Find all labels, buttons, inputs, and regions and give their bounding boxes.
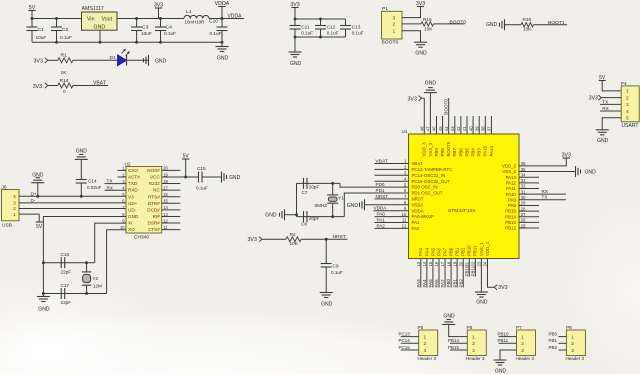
wire C16 row (XI net) xyxy=(43,261,94,264)
svg-text:42: 42 xyxy=(456,126,461,131)
wire AMS1117 GND lead xyxy=(99,30,101,42)
ground symbol above USB (shield) xyxy=(31,172,44,196)
header P7 xyxy=(516,325,536,361)
svg-text:1: 1 xyxy=(472,334,475,340)
svg-text:11: 11 xyxy=(402,218,407,223)
svg-text:PB1: PB1 xyxy=(549,338,558,343)
wire CH340 VCC to 5V and C15 xyxy=(162,159,199,179)
svg-text:PC15-OSC32_OUT: PC15-OSC32_OUT xyxy=(412,179,451,184)
svg-text:1: 1 xyxy=(393,29,396,35)
wire USB D- row xyxy=(19,202,126,204)
CH340 right pin numbers xyxy=(163,166,168,230)
svg-text:VDDA: VDDA xyxy=(228,13,243,19)
svg-text:16: 16 xyxy=(434,261,439,266)
svg-text:44: 44 xyxy=(444,126,449,131)
svg-text:2: 2 xyxy=(13,206,16,212)
svg-text:PA1: PA1 xyxy=(412,220,421,225)
svg-text:C4: C4 xyxy=(166,25,173,31)
ground symbol below USART xyxy=(596,130,609,144)
svg-text:5V: 5V xyxy=(29,5,36,11)
svg-text:22: 22 xyxy=(471,261,476,266)
svg-text:10uF: 10uF xyxy=(36,35,47,41)
capacitor C8 xyxy=(301,211,319,228)
svg-text:19: 19 xyxy=(452,261,457,266)
wire R1 to LED D1 xyxy=(73,59,118,61)
wire USART pin3 TX xyxy=(600,103,621,105)
svg-text:Header 3: Header 3 xyxy=(466,356,485,361)
svg-text:PA1: PA1 xyxy=(377,217,386,222)
wire CH340 pin4 RXD xyxy=(105,189,127,191)
resistor R16 xyxy=(521,17,534,32)
svg-text:DCD#: DCD# xyxy=(147,207,160,212)
wire MCU VSS_1 to ground xyxy=(480,259,482,293)
svg-text:RXD: RXD xyxy=(128,188,138,193)
svg-text:UD+: UD+ xyxy=(128,201,138,206)
svg-text:BOOT0: BOOT0 xyxy=(446,141,451,156)
svg-text:3V3: 3V3 xyxy=(290,2,299,8)
svg-text:10mH10R: 10mH10R xyxy=(185,20,205,25)
ground symbol right of VSS_2 xyxy=(576,166,597,177)
svg-text:PD1 OSC_OUT: PD1 OSC_OUT xyxy=(412,191,443,196)
svg-text:P1: P1 xyxy=(382,6,388,12)
net labels PA3-PB2 (rotated) xyxy=(416,278,463,287)
svg-text:PB10: PB10 xyxy=(467,245,472,256)
svg-text:1K: 1K xyxy=(61,70,68,76)
svg-text:J6: J6 xyxy=(2,184,7,190)
wire MCU BOOT0 pin stub xyxy=(448,98,450,134)
svg-text:3: 3 xyxy=(13,201,16,207)
svg-text:PA10: PA10 xyxy=(506,192,517,197)
capacitor C10 xyxy=(209,18,228,42)
svg-text:C8: C8 xyxy=(301,222,307,228)
svg-text:3: 3 xyxy=(424,348,427,354)
svg-text:C12: C12 xyxy=(327,24,336,30)
CH340 left pin numbers xyxy=(120,166,125,230)
svg-text:3V3: 3V3 xyxy=(248,237,257,243)
svg-text:GND: GND xyxy=(476,300,488,306)
wire CH340 pin9 XI xyxy=(95,223,126,263)
wire C17 row (XO net) xyxy=(43,292,106,295)
svg-text:PA15: PA15 xyxy=(483,146,488,157)
wire USART pin1 to 5V xyxy=(602,81,621,91)
svg-text:USB: USB xyxy=(2,222,12,228)
svg-text:GND: GND xyxy=(217,56,229,62)
wire MCU VDD_2 to 3V3 xyxy=(519,158,566,166)
wire MCU NRST stub xyxy=(375,198,409,200)
ground symbol below decoupling bank xyxy=(289,52,302,67)
svg-text:PB10: PB10 xyxy=(498,331,510,336)
power symbol 3V3 (regulator output) xyxy=(154,2,163,18)
svg-text:PB7: PB7 xyxy=(452,148,457,157)
svg-text:3V3: 3V3 xyxy=(33,84,42,90)
MCU bottom pin names xyxy=(418,241,490,256)
svg-text:C15: C15 xyxy=(197,166,206,172)
svg-text:VDD_3: VDD_3 xyxy=(422,142,427,157)
svg-text:GND: GND xyxy=(155,58,167,64)
wire USB D+ row xyxy=(19,195,126,198)
svg-text:3: 3 xyxy=(472,348,475,354)
svg-text:PB11: PB11 xyxy=(473,245,478,256)
svg-text:R2: R2 xyxy=(290,232,296,238)
svg-text:33: 33 xyxy=(521,178,526,183)
wire MCU PB12 stub xyxy=(519,227,539,229)
svg-text:5V: 5V xyxy=(599,75,606,81)
svg-text:PB2: PB2 xyxy=(549,345,558,350)
power symbol 5V (input) xyxy=(28,5,35,19)
svg-text:25: 25 xyxy=(521,223,526,228)
power port 3V3 (VDD_1) xyxy=(494,285,507,291)
svg-text:PA2: PA2 xyxy=(412,226,421,231)
svg-text:17: 17 xyxy=(440,261,445,266)
wire R15 to BOOT0 xyxy=(434,23,465,25)
MCU left pin names xyxy=(412,161,453,231)
wire MCU PC15 stub xyxy=(375,180,409,182)
wire P7 pin1 xyxy=(499,336,517,338)
wire MCU top pin stubs xyxy=(437,116,492,134)
capacitor C12 xyxy=(315,19,339,37)
svg-text:NRST: NRST xyxy=(412,197,424,202)
power port 3V3 (NRST) xyxy=(248,237,263,244)
power port 3V3 (LED row) xyxy=(34,58,48,65)
power port 3V3 (VBAT row) xyxy=(33,83,48,90)
svg-text:0.1uF: 0.1uF xyxy=(210,31,222,37)
ground symbol left of R16 xyxy=(486,19,505,30)
svg-text:XI: XI xyxy=(128,221,132,226)
svg-text:PD1: PD1 xyxy=(376,188,385,193)
svg-text:14: 14 xyxy=(422,261,427,266)
power symbol 5V (CH340) xyxy=(182,153,189,159)
crystal Y2 12M xyxy=(82,263,102,294)
svg-text:1: 1 xyxy=(521,334,524,340)
svg-text:PB10: PB10 xyxy=(464,265,469,277)
svg-text:PB3: PB3 xyxy=(477,148,482,157)
svg-text:PB2: PB2 xyxy=(458,278,463,287)
svg-text:PA8: PA8 xyxy=(508,203,517,208)
wire P5 pin1 xyxy=(401,336,419,338)
svg-text:TX: TX xyxy=(107,179,113,184)
svg-text:CH340: CH340 xyxy=(134,234,149,240)
wire P1 pin2 to R15 xyxy=(402,23,421,25)
CH340 right pin names xyxy=(147,168,160,232)
wire P8 pin3 xyxy=(559,349,567,351)
svg-text:PB12: PB12 xyxy=(505,226,516,231)
wire MCU VDDA stub xyxy=(374,210,409,212)
resistor R15 xyxy=(421,17,434,33)
wire P7 pin2 xyxy=(499,342,517,344)
svg-text:GND: GND xyxy=(38,307,50,313)
svg-text:0: 0 xyxy=(63,89,66,95)
svg-text:XO: XO xyxy=(128,227,135,232)
svg-text:VSS_3: VSS_3 xyxy=(428,142,433,156)
wire P8 pin2 xyxy=(559,342,567,344)
wire CH340 pin1 stub xyxy=(118,169,127,171)
LED D1 xyxy=(110,49,130,66)
capacitor C15 xyxy=(196,166,222,190)
svg-text:GND: GND xyxy=(128,214,139,219)
svg-text:PB11: PB11 xyxy=(498,338,509,343)
svg-text:PB1: PB1 xyxy=(455,247,460,256)
svg-text:0.1uF: 0.1uF xyxy=(352,30,364,35)
svg-text:PB14: PB14 xyxy=(505,214,516,219)
svg-text:GND: GND xyxy=(321,301,333,307)
svg-text:BOOT0: BOOT0 xyxy=(382,39,399,45)
ground symbol below C10 xyxy=(216,47,229,62)
svg-text:GND: GND xyxy=(597,138,609,144)
svg-text:1: 1 xyxy=(13,212,16,218)
wire CH340 pin2 stub xyxy=(118,176,127,178)
svg-text:PB8: PB8 xyxy=(440,148,445,157)
capacitor C14 xyxy=(76,159,102,196)
svg-text:GND: GND xyxy=(290,61,302,67)
ground symbol above P6 xyxy=(442,314,455,325)
ground symbol above VSS_3 xyxy=(424,81,437,93)
resistor R2 xyxy=(286,232,301,247)
svg-text:VDD_2: VDD_2 xyxy=(502,164,517,169)
ground symbol above C14 xyxy=(75,149,88,160)
svg-text:GND: GND xyxy=(76,149,88,155)
wire USB pin1 to 5V xyxy=(19,214,39,222)
svg-text:PB15: PB15 xyxy=(448,345,460,350)
capacitor C13 xyxy=(340,19,364,37)
wire MCU PC14 stub xyxy=(375,174,409,176)
svg-text:C11: C11 xyxy=(301,24,310,30)
ground symbol below crystal rail xyxy=(37,297,50,313)
svg-text:18: 18 xyxy=(446,261,451,266)
wire CH340 right stubs xyxy=(162,170,181,229)
wire MCU PA13 stub xyxy=(519,176,539,178)
svg-text:PA7: PA7 xyxy=(440,279,445,288)
power port 3V3 (MCU top) xyxy=(408,96,422,103)
svg-text:36: 36 xyxy=(521,161,526,166)
svg-text:UD-: UD- xyxy=(128,207,137,212)
wire P6 pin3 xyxy=(450,349,467,351)
svg-text:PA6: PA6 xyxy=(434,279,439,288)
svg-text:28: 28 xyxy=(521,206,526,211)
net labels PB10 PB11 (rotated) xyxy=(464,265,475,277)
capacitor C2 xyxy=(51,19,72,43)
wire P1 pin1 to ground xyxy=(402,31,421,43)
svg-text:10: 10 xyxy=(120,225,125,230)
ground rail wire (top section) xyxy=(32,41,224,47)
wire ground to R16 xyxy=(505,24,522,26)
svg-text:5V: 5V xyxy=(183,153,190,159)
svg-text:GND: GND xyxy=(443,314,455,320)
svg-text:C1: C1 xyxy=(38,27,45,33)
svg-text:23: 23 xyxy=(477,261,482,266)
svg-text:10: 10 xyxy=(402,212,407,217)
svg-text:39: 39 xyxy=(474,126,479,131)
ground symbol below C9 xyxy=(320,293,333,308)
wire C7 row (OSC_IN net) xyxy=(297,182,409,187)
wire P7 pin3 to ground xyxy=(500,350,517,360)
svg-text:Vin: Vin xyxy=(87,16,95,22)
svg-text:PB11: PB11 xyxy=(470,265,475,276)
capacitor C9 xyxy=(321,239,343,292)
svg-text:PA0: PA0 xyxy=(377,212,386,217)
wire MCU PB14 stub xyxy=(519,216,539,218)
svg-text:Header 3: Header 3 xyxy=(566,356,585,361)
power symbol VDDA xyxy=(215,1,230,19)
svg-text:C17: C17 xyxy=(61,283,70,289)
svg-text:RX: RX xyxy=(107,185,113,190)
svg-text:3: 3 xyxy=(521,348,524,354)
capacitor C4 xyxy=(155,19,176,43)
wire P5 pin2 xyxy=(401,342,419,344)
svg-text:Y1: Y1 xyxy=(338,196,344,202)
wire USART pin2 to 3V3 xyxy=(601,97,621,99)
svg-text:3V3: 3V3 xyxy=(154,2,163,8)
svg-text:R1: R1 xyxy=(61,52,68,58)
svg-text:3V3: 3V3 xyxy=(498,285,507,291)
svg-text:29: 29 xyxy=(521,201,526,206)
svg-text:3: 3 xyxy=(626,102,629,108)
svg-text:PB13: PB13 xyxy=(505,220,516,225)
svg-text:C16: C16 xyxy=(61,252,70,258)
svg-text:NOS#: NOS# xyxy=(147,168,160,173)
MCU left pin numbers xyxy=(402,159,407,229)
svg-text:0.1uF: 0.1uF xyxy=(164,31,176,37)
svg-text:47: 47 xyxy=(426,126,431,131)
wire R16 to BOOT1 xyxy=(534,24,568,26)
capacitor C3 xyxy=(131,19,152,43)
wire MCU PB15 stub xyxy=(519,210,539,212)
capacitor C7 xyxy=(302,178,320,196)
svg-text:R16: R16 xyxy=(523,17,532,23)
svg-text:PA11: PA11 xyxy=(506,186,517,191)
svg-text:3V3: 3V3 xyxy=(589,96,598,102)
svg-text:3: 3 xyxy=(571,348,574,354)
svg-text:2: 2 xyxy=(571,341,574,347)
svg-text:BOOT1: BOOT1 xyxy=(548,20,565,26)
wire P1 pin3 to 3V3 xyxy=(402,7,421,18)
power symbol 3V3 (MCU right) xyxy=(562,152,571,158)
svg-text:VDDA: VDDA xyxy=(412,208,424,213)
power symbol 3V3 (P1) xyxy=(416,1,425,7)
svg-text:RTS#: RTS# xyxy=(148,194,160,199)
power symbol 5V (USB) xyxy=(36,222,43,230)
svg-text:D+: D+ xyxy=(31,191,37,196)
svg-text:32: 32 xyxy=(521,184,526,189)
svg-text:CXO: CXO xyxy=(128,168,138,173)
svg-text:2: 2 xyxy=(626,95,629,101)
svg-text:P6: P6 xyxy=(467,325,473,331)
svg-text:GND: GND xyxy=(425,81,437,87)
wire MCU VSS_2 to ground xyxy=(519,171,576,173)
CH340 left pin names xyxy=(128,168,140,232)
svg-text:VCC: VCC xyxy=(150,175,160,180)
MCU right pin names xyxy=(502,164,517,231)
MCU right pin numbers xyxy=(521,161,526,228)
svg-text:PA12: PA12 xyxy=(506,180,517,185)
svg-text:PC15: PC15 xyxy=(399,345,411,350)
svg-text:13: 13 xyxy=(416,261,421,266)
wire MCU VDD_3 to 3V3 xyxy=(422,98,425,134)
svg-text:40: 40 xyxy=(468,126,473,131)
svg-text:PB14: PB14 xyxy=(448,338,460,343)
wire USART pin4 RX xyxy=(600,110,621,112)
power port 3V3 (USART) xyxy=(589,95,602,102)
svg-text:GND: GND xyxy=(229,175,241,181)
svg-text:RX: RX xyxy=(602,106,608,111)
svg-text:Vout: Vout xyxy=(102,16,113,22)
wire USART pin5 to ground xyxy=(602,118,621,130)
svg-text:GND: GND xyxy=(415,50,427,56)
svg-text:NRST: NRST xyxy=(376,194,389,199)
svg-text:P4: P4 xyxy=(621,81,627,87)
svg-text:45: 45 xyxy=(438,126,443,131)
wire MCU PA0 stub xyxy=(375,216,409,218)
svg-text:PA3: PA3 xyxy=(418,247,423,256)
resistor R1 xyxy=(58,52,73,75)
svg-text:0.1uF: 0.1uF xyxy=(196,185,208,190)
svg-text:PB6: PB6 xyxy=(458,148,463,157)
svg-text:48: 48 xyxy=(420,126,425,131)
svg-text:RI#: RI# xyxy=(153,214,161,219)
wire CH340 pin10 XO xyxy=(107,230,126,294)
svg-text:43: 43 xyxy=(450,126,455,131)
svg-text:22pF: 22pF xyxy=(61,300,72,305)
svg-text:GND: GND xyxy=(495,368,507,374)
svg-text:PA5: PA5 xyxy=(430,247,435,256)
crystal Y1 8MHZ xyxy=(315,183,345,216)
svg-text:PA9: PA9 xyxy=(508,197,517,202)
svg-text:PC13: PC13 xyxy=(399,331,411,336)
svg-text:PA4: PA4 xyxy=(422,279,427,288)
wire P8 pin1 xyxy=(559,336,567,338)
resistor R14 xyxy=(58,78,73,95)
svg-text:PA13: PA13 xyxy=(506,175,517,180)
svg-text:1: 1 xyxy=(626,89,629,95)
ground symbol left of crystal xyxy=(265,209,284,220)
wire MCU PA10 RX xyxy=(519,193,566,195)
svg-text:TX: TX xyxy=(602,99,608,104)
svg-text:PA5: PA5 xyxy=(428,279,433,288)
wire MCU VSS_3 to ground xyxy=(429,93,431,134)
MCU top pin names xyxy=(422,141,494,156)
svg-text:VBAT: VBAT xyxy=(93,80,106,86)
svg-text:NC: NC xyxy=(153,188,160,193)
wire P6 pin1 to ground xyxy=(449,325,468,337)
svg-text:CTS#: CTS# xyxy=(148,227,160,232)
wire MCU VDD_1 to 3V3 xyxy=(487,259,494,288)
ground symbol at VSSA xyxy=(347,199,409,210)
svg-text:38: 38 xyxy=(481,126,486,131)
svg-text:2: 2 xyxy=(393,22,396,28)
svg-text:22pF: 22pF xyxy=(61,270,72,275)
svg-text:PB9: PB9 xyxy=(434,148,439,157)
svg-text:C14: C14 xyxy=(88,178,97,184)
svg-text:PB1: PB1 xyxy=(452,278,457,287)
svg-text:20pF: 20pF xyxy=(309,216,320,221)
svg-text:0.1uF: 0.1uF xyxy=(331,270,343,275)
svg-text:41: 41 xyxy=(462,126,467,131)
svg-text:30: 30 xyxy=(521,195,526,200)
wire 3V3 to R14 xyxy=(48,85,58,87)
svg-text:3V3: 3V3 xyxy=(416,1,425,7)
wire 3V3 output rail xyxy=(117,17,184,20)
svg-text:10K: 10K xyxy=(290,241,299,247)
svg-text:8MHZ: 8MHZ xyxy=(315,203,328,208)
svg-text:AMS1117: AMS1117 xyxy=(82,6,104,12)
svg-text:P7: P7 xyxy=(516,325,522,331)
svg-text:31: 31 xyxy=(521,189,526,194)
svg-text:L1: L1 xyxy=(186,9,192,15)
svg-text:20: 20 xyxy=(458,261,463,266)
svg-text:PB5: PB5 xyxy=(464,148,469,157)
svg-text:PB4: PB4 xyxy=(471,148,476,157)
wire MCU PA9 TX xyxy=(519,199,566,201)
svg-text:PA14: PA14 xyxy=(489,146,494,157)
